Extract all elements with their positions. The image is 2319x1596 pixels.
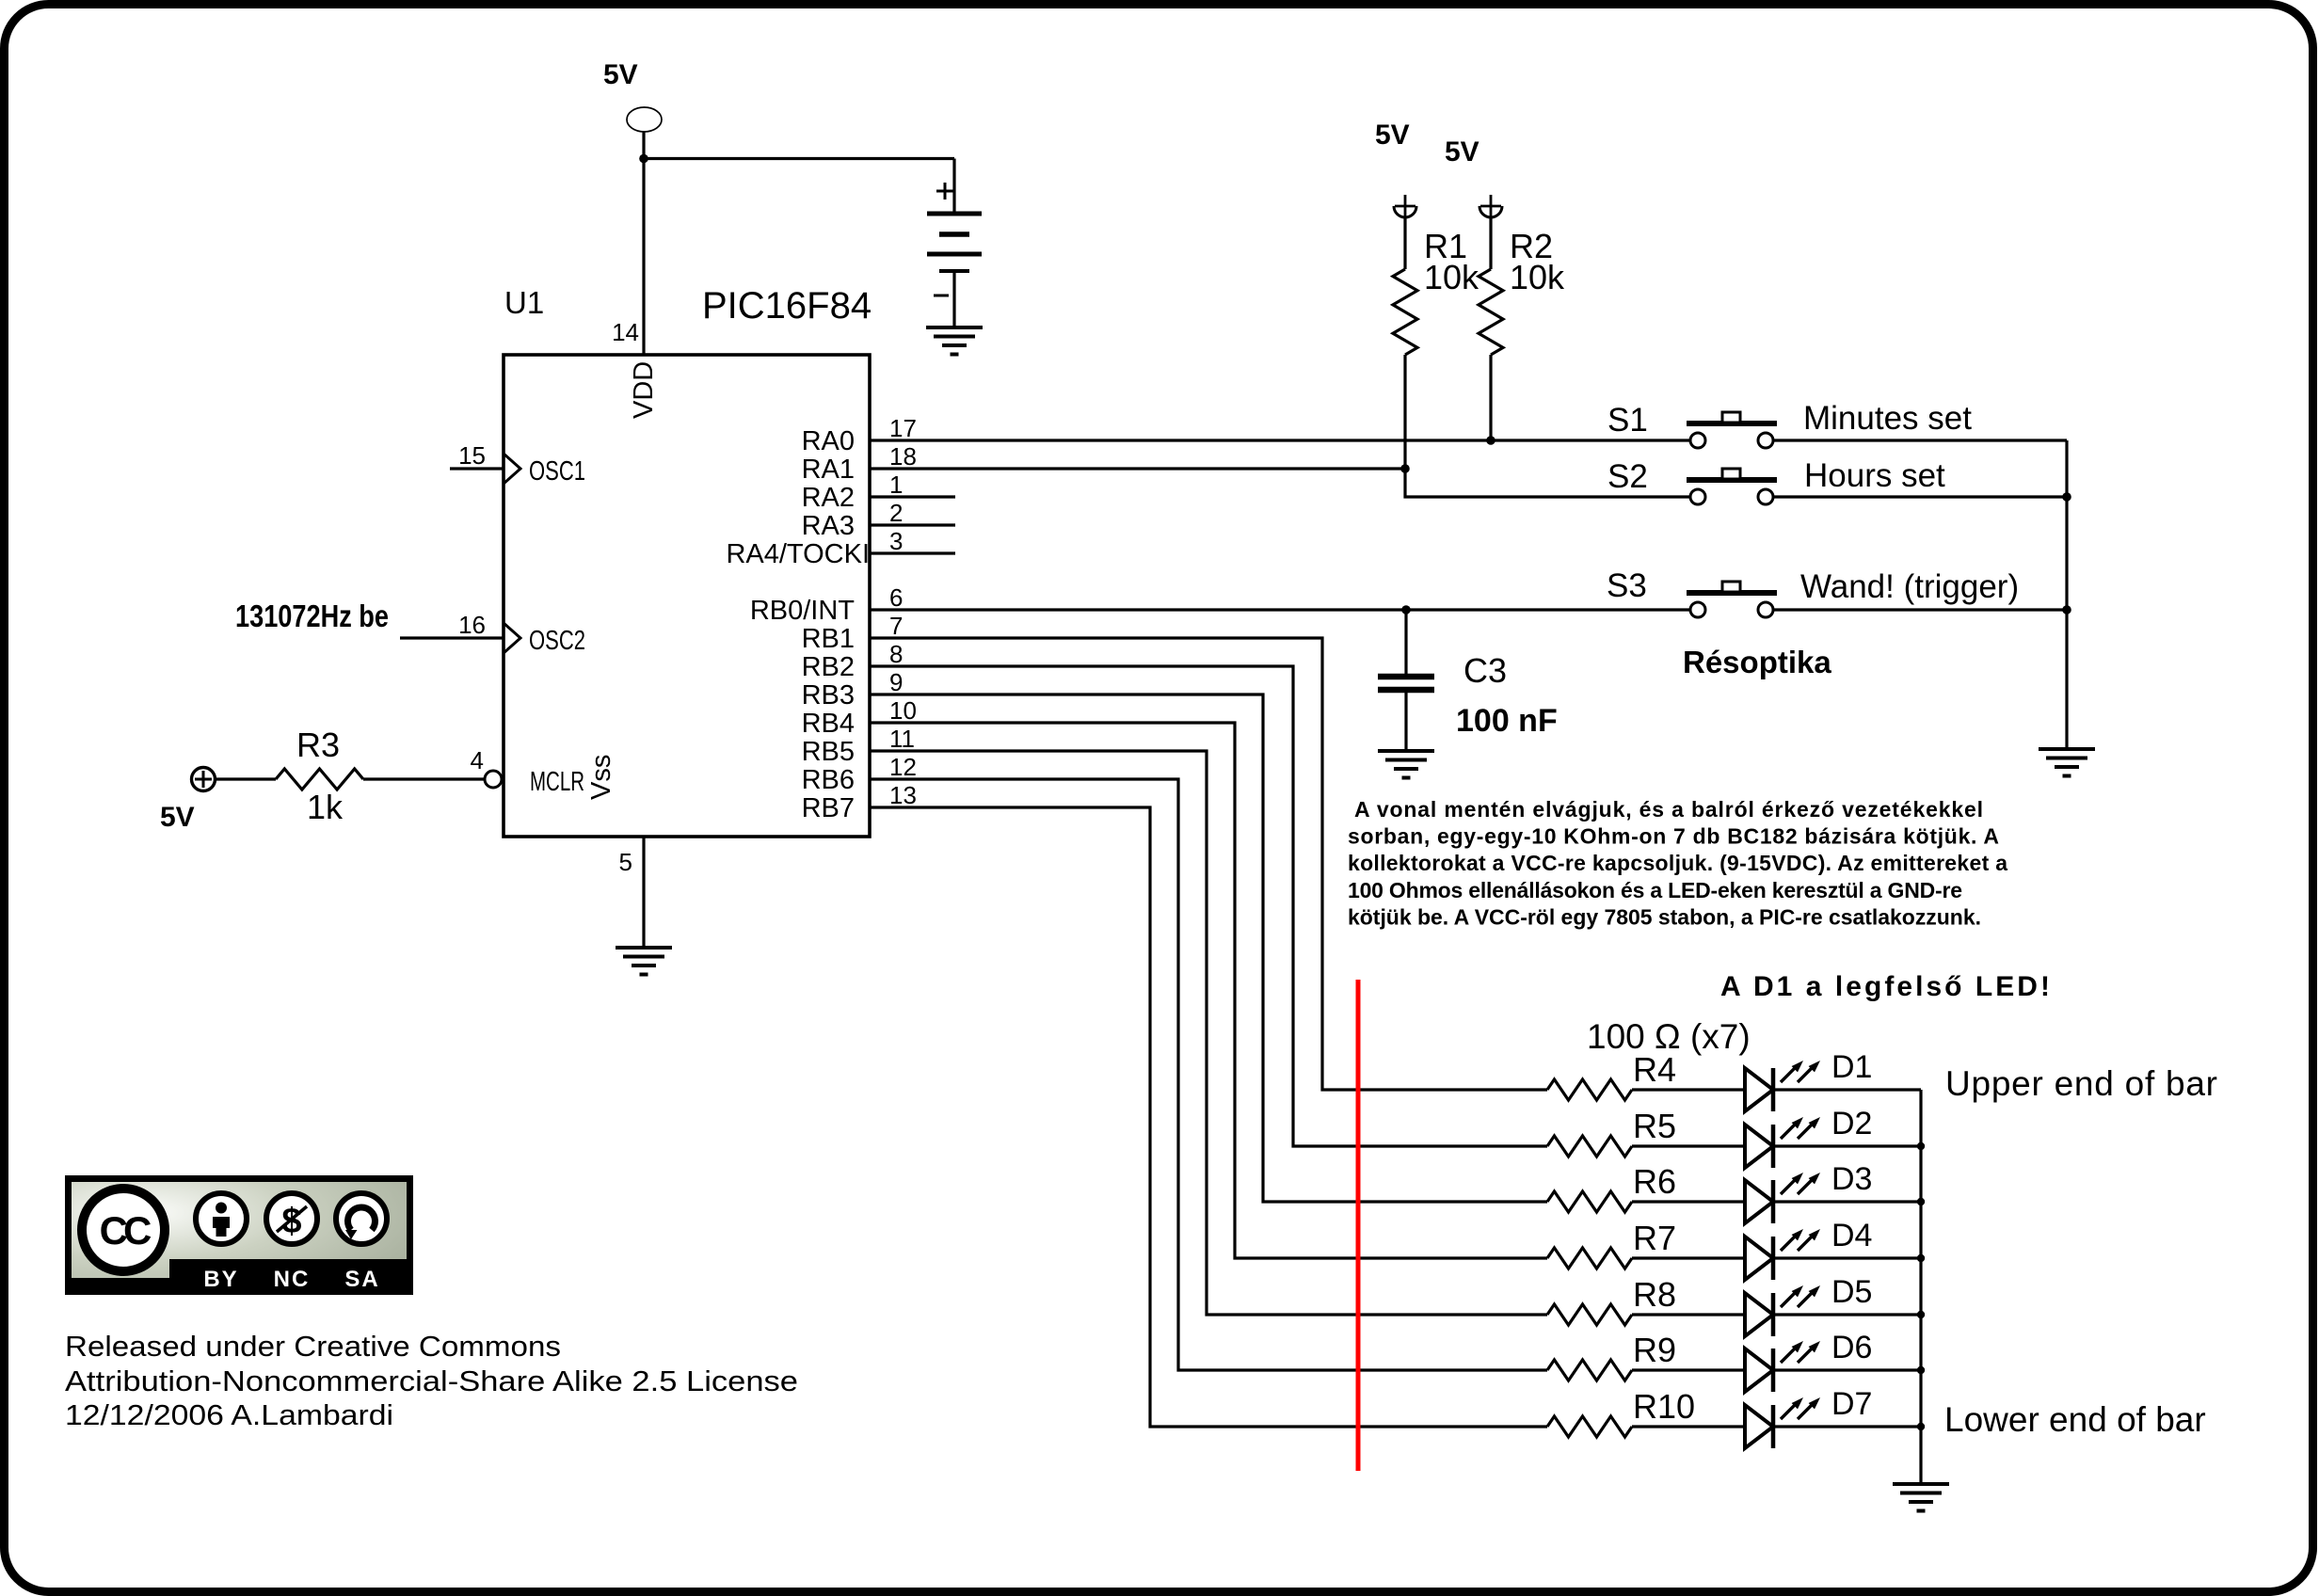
svg-text:R5: R5 (1633, 1107, 1676, 1145)
svg-text:U1: U1 (504, 285, 544, 320)
switch S3 (1687, 582, 1777, 617)
pin 18 RA1 label (802, 442, 917, 485)
node D7 bus junction (1917, 1423, 1925, 1430)
svg-text:S1: S1 (1607, 402, 1648, 439)
LED D6 (1745, 1330, 1872, 1392)
svg-text:R7: R7 (1633, 1219, 1676, 1257)
svg-text:1: 1 (889, 471, 903, 499)
svg-text:Lower end of bar: Lower end of bar (1944, 1400, 2206, 1439)
svg-text:RB0/INT: RB0/INT (750, 596, 855, 626)
wire RB1 to LED row 1 (870, 638, 1547, 1090)
svg-text:A vonal mentén elvágjuk, és a: A vonal mentén elvágjuk, és a balról érk… (1354, 797, 1983, 822)
svg-text:Upper end of bar: Upper end of bar (1945, 1064, 2217, 1103)
svg-text:BY: BY (203, 1267, 238, 1292)
wire right bus vertical (2065, 440, 2068, 749)
power terminal 5V (R2) (1445, 136, 1502, 217)
svg-text:Wand! (trigger): Wand! (trigger) (1800, 568, 2019, 605)
svg-text:D4: D4 (1831, 1218, 1872, 1253)
LED D4 (1745, 1218, 1872, 1280)
svg-text:5: 5 (619, 848, 632, 876)
svg-text:CC: CC (100, 1208, 152, 1253)
svg-text:PIC16F84: PIC16F84 (702, 285, 872, 327)
resistor R1 10k (1393, 217, 1479, 355)
node D4 bus junction (1917, 1254, 1925, 1262)
wire R4 to D1 (1632, 1088, 1745, 1091)
power terminal 5V (R1) (1375, 120, 1416, 217)
svg-text:3: 3 (889, 527, 903, 555)
node RA1/R1 junction (1400, 464, 1410, 473)
svg-text:10: 10 (889, 696, 917, 725)
wire D5 to bus (1773, 1313, 1921, 1316)
node S2 bus junction (2062, 492, 2071, 502)
wire battery top lead (952, 159, 955, 215)
wire D6 to bus (1773, 1368, 1921, 1371)
pin 5 Vss wire (586, 755, 644, 948)
wire R5 to D2 (1632, 1144, 1745, 1147)
svg-text:OSC1: OSC1 (529, 456, 585, 487)
wire R8 to D5 (1632, 1313, 1745, 1316)
resistor R10 100 Ohm (1547, 1387, 1695, 1437)
cut line (red) (1356, 980, 1361, 1471)
svg-text:Hours set: Hours set (1804, 457, 1945, 494)
resistor R6 100 Ohm (1547, 1162, 1676, 1212)
pin 14 VDD wire (612, 132, 659, 419)
wire R7 to D4 (1632, 1256, 1745, 1259)
svg-text:kollektorokat a VCC-re kapcsol: kollektorokat a VCC-re kapcsoljuk. (9-15… (1348, 851, 2007, 875)
svg-text:RA2: RA2 (802, 483, 855, 513)
note Hungarian text (1348, 797, 2007, 930)
svg-text:R10: R10 (1633, 1387, 1695, 1426)
node C3 junction (1401, 605, 1411, 614)
pin 12 RB6 label (802, 753, 917, 795)
svg-text:100 nF: 100 nF (1456, 703, 1558, 739)
wire RB0/INT to S3 (870, 608, 1690, 611)
wire R2 down to RA0 net (1489, 355, 1492, 440)
svg-text:Minutes set: Minutes set (1803, 400, 1972, 437)
svg-text:RA0: RA0 (802, 426, 855, 456)
svg-text:D6: D6 (1831, 1330, 1872, 1365)
svg-text:8: 8 (889, 640, 903, 668)
svg-text:MCLR: MCLR (530, 767, 584, 797)
resistor R5 100 Ohm (1547, 1107, 1676, 1157)
node D2 bus junction (1917, 1142, 1925, 1150)
node 5V supply junction (639, 154, 648, 164)
pin 16 OSC2 (400, 611, 585, 656)
LED D2 (1745, 1106, 1872, 1168)
wire 5V node to battery (644, 157, 954, 160)
svg-text:RB7: RB7 (802, 793, 855, 823)
wire RA stub pin 1 (870, 495, 955, 498)
wire R6 to D3 (1632, 1200, 1745, 1203)
license text (65, 1330, 798, 1431)
wire RB3 to LED row 3 (870, 694, 1547, 1202)
wire D4 to bus (1773, 1256, 1921, 1259)
svg-text:sorban, egy-egy-10 KOhm-on 7 d: sorban, egy-egy-10 KOhm-on 7 db BC182 bá… (1348, 824, 1999, 849)
svg-text:kötjük be. A VCC-röl egy 7805: kötjük be. A VCC-röl egy 7805 stabon, a … (1348, 905, 1981, 930)
svg-text:6: 6 (889, 583, 903, 612)
resistor R8 100 Ohm (1547, 1275, 1676, 1325)
svg-text:5V: 5V (160, 802, 195, 833)
svg-text:D5: D5 (1831, 1274, 1872, 1310)
svg-text:RA1: RA1 (802, 455, 855, 485)
svg-text:16: 16 (458, 611, 486, 639)
wire RA stub pin 3 (870, 551, 955, 554)
svg-text:C3: C3 (1463, 651, 1507, 690)
svg-text:S3: S3 (1607, 567, 1647, 604)
ground (right bus) (2039, 749, 2095, 776)
svg-text:NC: NC (274, 1267, 311, 1292)
wire LED cathode bus (1919, 1090, 1922, 1484)
svg-text:D7: D7 (1831, 1386, 1872, 1422)
wire R3 to MCLR (363, 777, 485, 780)
pin 8 RB2 label (802, 640, 904, 682)
svg-text:RA3: RA3 (802, 511, 855, 541)
wire S2 to bus (1773, 495, 2067, 498)
battery B1 (927, 183, 982, 327)
wire S3 to bus (1773, 608, 2067, 611)
pin 3 RA4/TOCKI label (726, 527, 903, 569)
resistor R7 100 Ohm (1547, 1219, 1676, 1269)
wire D3 to bus (1773, 1200, 1921, 1203)
switch S1 (1687, 412, 1777, 448)
ground (C3) (1378, 751, 1434, 778)
ground (LED bus) (1893, 1484, 1949, 1511)
pin 17 RA0 label (802, 414, 917, 456)
svg-text:100 Ohmos ellenállásokon és a: 100 Ohmos ellenállásokon és a LED-eken k… (1348, 878, 1962, 902)
svg-text:11: 11 (889, 725, 915, 753)
svg-text:D3: D3 (1831, 1161, 1872, 1197)
pin 6 RB0/INT label (750, 583, 904, 626)
svg-text:R9: R9 (1633, 1331, 1676, 1369)
svg-text:R6: R6 (1633, 1162, 1676, 1201)
svg-text:15: 15 (458, 441, 486, 470)
wire D7 to bus (1773, 1425, 1921, 1428)
svg-text:131072Hz be: 131072Hz be (235, 598, 389, 633)
svg-text:14: 14 (612, 318, 639, 346)
svg-text:R8: R8 (1633, 1275, 1676, 1314)
pin 1 RA2 label (802, 471, 904, 513)
node S3 bus junction (2062, 605, 2071, 614)
svg-text:12/12/2006 A.Lambardi: 12/12/2006 A.Lambardi (65, 1398, 393, 1431)
svg-text:Released under Creative Common: Released under Creative Commons (65, 1330, 561, 1363)
wire S1 to bus (1773, 439, 2067, 441)
svg-text:D1: D1 (1831, 1049, 1872, 1085)
svg-text:R4: R4 (1633, 1050, 1676, 1089)
pin 15 OSC1 (450, 441, 585, 487)
wire RB5 to LED row 5 (870, 751, 1547, 1315)
svg-text:Résoptika: Résoptika (1683, 645, 1831, 679)
pin 4 MCLR bubble (471, 746, 584, 797)
svg-text:RB5: RB5 (802, 737, 855, 767)
ground (under IC) (616, 948, 672, 975)
svg-text:5V: 5V (603, 59, 638, 90)
svg-text:10k: 10k (1424, 258, 1479, 296)
capacitor C3 100nF (1378, 610, 1558, 751)
node D6 bus junction (1917, 1366, 1925, 1374)
svg-text:18: 18 (889, 442, 917, 471)
svg-text:RB2: RB2 (802, 652, 855, 682)
svg-text:OSC2: OSC2 (529, 626, 585, 656)
node RA0/R2 junction (1486, 436, 1495, 445)
pin 10 RB4 label (802, 696, 917, 739)
pin 7 RB1 label (802, 612, 904, 654)
resistor R9 100 Ohm (1547, 1331, 1676, 1381)
wire RB4 to LED row 4 (870, 723, 1547, 1258)
LED D1 (1745, 1049, 1872, 1111)
svg-text:RB4: RB4 (802, 709, 855, 739)
switch S2 (1687, 469, 1777, 504)
svg-text:13: 13 (889, 781, 917, 809)
svg-text:1k: 1k (307, 788, 344, 826)
svg-text:SA: SA (344, 1267, 379, 1292)
svg-text:A D1 a legfelső LED!: A D1 a legfelső LED! (1720, 971, 2050, 1002)
svg-text:5V: 5V (1375, 120, 1410, 151)
wire RA1 to R1 (870, 467, 1405, 470)
svg-text:17: 17 (889, 414, 917, 442)
node D5 bus junction (1917, 1311, 1925, 1318)
svg-text:5V: 5V (1445, 136, 1479, 168)
svg-text:Attribution-Noncommercial-Shar: Attribution-Noncommercial-Share Alike 2.… (65, 1365, 798, 1397)
Creative Commons badge (69, 1179, 410, 1293)
wire RA stub pin 2 (870, 523, 955, 526)
wire RB2 to LED row 2 (870, 666, 1547, 1146)
pin 2 RA3 label (802, 499, 904, 541)
wire R10 to D7 (1632, 1425, 1745, 1428)
wire RA0 to S1 (870, 439, 1690, 441)
svg-text:RB6: RB6 (802, 765, 855, 795)
power terminal 5V (left, R3) (160, 768, 216, 834)
svg-text:Vss: Vss (586, 755, 616, 800)
svg-text:9: 9 (889, 668, 903, 696)
svg-text:VDD: VDD (629, 361, 659, 419)
svg-text:D2: D2 (1831, 1106, 1872, 1141)
LED D7 (1745, 1386, 1872, 1448)
svg-text:2: 2 (889, 499, 903, 527)
svg-text:RA4/TOCKI: RA4/TOCKI (726, 539, 870, 569)
svg-text:12: 12 (889, 753, 917, 781)
LED D3 (1745, 1161, 1872, 1223)
wire R9 to D6 (1632, 1368, 1745, 1371)
svg-text:$: $ (281, 1202, 301, 1241)
LED D5 (1745, 1274, 1872, 1336)
pin 9 RB3 label (802, 668, 904, 710)
wire D2 to bus (1773, 1144, 1921, 1147)
svg-text:10k: 10k (1510, 258, 1565, 296)
svg-text:R3: R3 (296, 726, 340, 764)
pin 13 RB7 label (802, 781, 917, 823)
node D3 bus junction (1917, 1198, 1925, 1205)
ground (battery) (926, 327, 983, 355)
svg-text:4: 4 (471, 746, 484, 774)
wire RB7 to LED row 7 (870, 807, 1547, 1427)
pin 11 RB5 label (802, 725, 915, 767)
resistor R4 100 Ohm (1547, 1050, 1676, 1100)
power terminal 5V (top) (603, 59, 662, 132)
IC U1 PIC16F84 (504, 285, 872, 837)
svg-text:RB1: RB1 (802, 624, 855, 654)
resistor R2 10k (1479, 217, 1565, 355)
resistor R3 1k (276, 726, 363, 826)
wire RB6 to LED row 6 (870, 779, 1547, 1370)
svg-text:7: 7 (889, 612, 903, 640)
svg-text:RB3: RB3 (802, 680, 855, 710)
svg-text:S2: S2 (1607, 458, 1648, 495)
wire D1 to bus (1773, 1088, 1921, 1091)
wire R1 down to S2 (1405, 355, 1690, 497)
wire 5V to R3 (216, 777, 277, 780)
